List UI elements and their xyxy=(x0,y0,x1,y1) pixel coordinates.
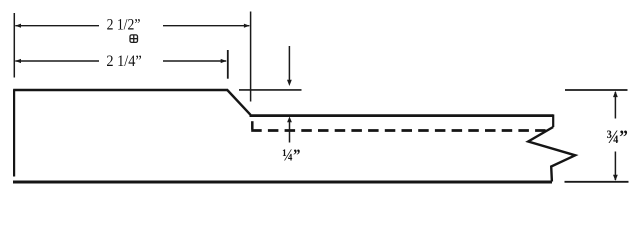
tick terminator for 2 1/4 xyxy=(227,50,229,79)
arrowhead left of 2 1/2 dim xyxy=(15,24,21,28)
board bottom edge xyxy=(13,181,552,184)
break zigzag edge xyxy=(528,127,575,182)
board top edge xyxy=(13,89,228,91)
dimension line 2 1/2 left segment xyxy=(15,25,99,27)
arrowhead down of 3/4 dim xyxy=(613,175,618,181)
right end drop edge xyxy=(552,114,554,127)
vertical dimension line 3/4 upper segment xyxy=(614,92,616,119)
board slanted shoulder xyxy=(227,90,250,115)
vertical dimension line 3/4 lower segment xyxy=(614,152,616,181)
extension line top right xyxy=(565,89,628,91)
arrowhead right of 2 1/2 dim xyxy=(244,24,250,28)
extension line bottom right xyxy=(565,181,629,183)
depth down arrow shaft xyxy=(288,46,290,80)
arrowhead up of 3/4 dim xyxy=(613,91,618,97)
dimension line 2 1/4 left segment xyxy=(15,60,99,62)
arrowhead left of 2 1/4 dim xyxy=(15,59,21,63)
svg-text:2 1/2”: 2 1/2” xyxy=(107,17,141,34)
dimension line 2 1/2 right segment xyxy=(163,25,249,27)
dimension line 2 1/4 right segment xyxy=(163,60,226,62)
svg-text:¾”: ¾” xyxy=(606,128,628,148)
svg-text:2 1/4”: 2 1/4” xyxy=(106,51,141,70)
plus-box marker xyxy=(130,35,138,43)
rabbet surface line xyxy=(250,114,554,117)
arrowhead right of 2 1/4 dim xyxy=(221,59,227,63)
extension line right for 2 1/2 xyxy=(250,12,252,102)
quarter inch up arrow shaft xyxy=(289,121,291,142)
quarter inch up arrowhead xyxy=(287,117,292,123)
top surface reference line xyxy=(239,89,302,91)
extension line left (shared) xyxy=(13,13,15,78)
hidden dashed line xyxy=(251,129,547,132)
depth down arrowhead xyxy=(287,80,292,86)
svg-text:¼”: ¼” xyxy=(282,145,300,164)
hidden line vertical stub xyxy=(251,121,254,129)
board left edge xyxy=(13,90,15,177)
